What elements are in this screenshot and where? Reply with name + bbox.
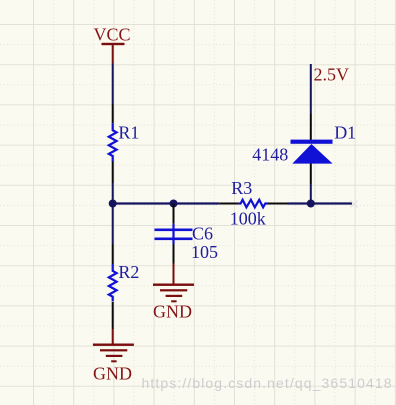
svg-text:4148: 4148 [252,145,288,165]
svg-text:VCC: VCC [93,25,130,45]
svg-text:D1: D1 [334,122,356,142]
svg-text:R1: R1 [118,122,139,142]
svg-text:100k: 100k [230,209,266,229]
svg-text:https://blog.csdn.net/qq_36510: https://blog.csdn.net/qq_36510418 [142,375,393,391]
svg-text:2.5V: 2.5V [314,65,350,85]
svg-text:105: 105 [191,242,218,262]
svg-text:C6: C6 [192,223,213,243]
svg-text:GND: GND [93,363,132,383]
svg-text:GND: GND [153,302,192,322]
svg-text:R3: R3 [231,178,252,198]
svg-text:R2: R2 [118,262,139,282]
